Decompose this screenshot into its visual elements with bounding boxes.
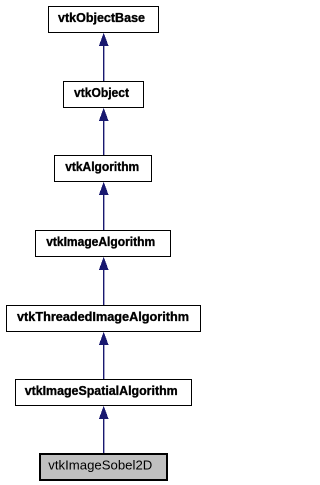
inheritance arrow vtkImageSpatialAlgorithm to vtkThreadedImageAlgorithm: [99, 332, 109, 380]
svg-text:vtkImageSpatialAlgorithm: vtkImageSpatialAlgorithm: [25, 383, 178, 398]
svg-text:vtkObject: vtkObject: [74, 85, 130, 100]
svg-text:vtkAlgorithm: vtkAlgorithm: [65, 159, 139, 174]
svg-text:vtkImageSobel2D: vtkImageSobel2D: [48, 458, 152, 473]
class box vtkImageAlgorithm: [36, 231, 171, 257]
inheritance arrow vtkThreadedImageAlgorithm to vtkImageAlgorithm: [99, 257, 109, 306]
inheritance arrow vtkImageSobel2D to vtkImageSpatialAlgorithm: [99, 406, 109, 455]
inheritance arrow vtkAlgorithm to vtkObject: [99, 108, 109, 156]
svg-text:vtkObjectBase: vtkObjectBase: [58, 10, 145, 25]
class box vtkObjectBase: [49, 7, 159, 33]
class box vtkThreadedImageAlgorithm: [7, 306, 201, 332]
class box vtkImageSobel2D (current class, grey fill): [40, 454, 167, 480]
inheritance arrow vtkImageAlgorithm to vtkAlgorithm: [99, 182, 109, 231]
class box vtkImageSpatialAlgorithm: [16, 380, 192, 406]
svg-text:vtkImageAlgorithm: vtkImageAlgorithm: [46, 234, 155, 249]
class box vtkObject: [64, 82, 144, 108]
inheritance arrow vtkObject to vtkObjectBase: [99, 33, 109, 82]
svg-text:vtkThreadedImageAlgorithm: vtkThreadedImageAlgorithm: [17, 309, 189, 324]
class box vtkAlgorithm: [55, 156, 152, 182]
